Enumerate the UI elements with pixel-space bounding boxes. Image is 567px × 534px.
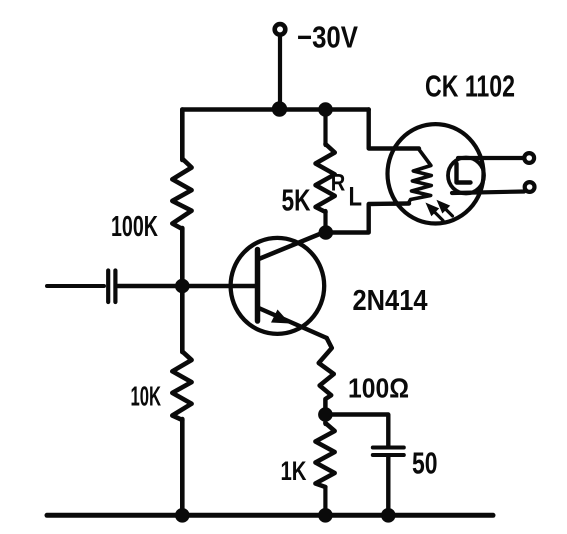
svg-text:10K: 10K bbox=[131, 381, 162, 412]
svg-text:5K: 5K bbox=[282, 183, 311, 218]
svg-text:100Ω: 100Ω bbox=[348, 373, 409, 404]
svg-text:R: R bbox=[331, 170, 346, 197]
svg-text:L: L bbox=[349, 182, 363, 212]
svg-text:1K: 1K bbox=[281, 456, 307, 486]
svg-text:100K: 100K bbox=[111, 211, 158, 243]
svg-text:2N414: 2N414 bbox=[353, 285, 428, 317]
svg-text:CK 1102: CK 1102 bbox=[425, 70, 515, 104]
svg-text:50: 50 bbox=[412, 446, 438, 481]
svg-text:−30V: −30V bbox=[297, 21, 359, 55]
